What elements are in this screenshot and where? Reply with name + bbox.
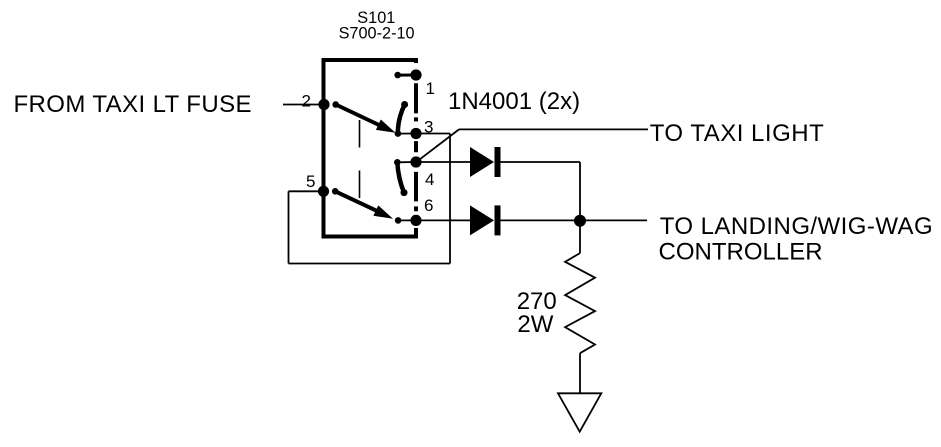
blade free dot below 4: [401, 189, 408, 196]
diode D2 1N4001: [470, 205, 501, 235]
switch S101 right edge dashed segments: [414, 83, 418, 233]
wire to taxi light: [459, 128, 648, 130]
svg-text:TO LANDING/WIG-WAG: TO LANDING/WIG-WAG: [660, 213, 933, 240]
terminal 2 dot: [318, 99, 329, 110]
terminal 4 dot: [410, 156, 421, 167]
blade arc between 1 and 3: [398, 105, 405, 134]
wire terminal 3 stub: [398, 133, 416, 135]
blade contact dot near terminal 1: [394, 72, 401, 79]
wire loop left vertical: [288, 191, 290, 263]
svg-text:5: 5: [306, 172, 315, 191]
resistor R1 270 2W zigzag: [565, 253, 595, 353]
terminal 6 dot: [410, 215, 421, 226]
terminal 3 dot: [410, 128, 421, 139]
pole contact dot at terminal 5: [332, 188, 339, 195]
terminal 1 dot: [410, 69, 421, 80]
blade arc between 4 and 6: [397, 162, 404, 192]
label TO LANDING/WIG-WAG CONTROLLER: [659, 213, 934, 266]
wire diagonal from terminal 4: [417, 129, 460, 161]
switch S101 label: [339, 9, 415, 43]
blade pivot dot above 3: [401, 101, 408, 108]
wire terminal 4 to diode D1: [416, 161, 470, 163]
diode D1 1N4001: [470, 147, 501, 177]
resistor value label 270 2W: [517, 288, 557, 338]
svg-text:1: 1: [426, 79, 435, 98]
ground symbol: [558, 393, 601, 431]
blade contact dot at 3: [395, 130, 402, 137]
blade contact dot at 6: [395, 217, 402, 224]
svg-text:2: 2: [302, 91, 311, 110]
wire loop vertical: [449, 134, 451, 264]
blade contact dot left of 4: [394, 159, 401, 166]
svg-text:CONTROLLER: CONTROLLER: [659, 239, 823, 266]
mechanical link dashed line: [359, 120, 361, 198]
blade at terminal 1: [398, 74, 416, 77]
svg-text:2W: 2W: [517, 311, 553, 338]
wire terminal 6 to diode D2: [416, 219, 470, 221]
svg-text:4: 4: [425, 170, 434, 189]
wire terminal 3 to loop: [416, 133, 450, 135]
pole contact dot at terminal 2: [332, 101, 339, 108]
wire terminal 6 stub: [398, 219, 416, 221]
svg-text:6: 6: [424, 196, 433, 215]
terminal 5 dot: [318, 186, 329, 197]
wire loop to terminal 5: [289, 190, 325, 192]
wire from taxi fuse to terminal 2: [283, 104, 324, 106]
blade stub to terminal 4: [397, 161, 416, 163]
svg-text:1N4001 (2x): 1N4001 (2x): [448, 88, 580, 115]
wire junction down to resistor: [579, 221, 581, 253]
junction node dot: [574, 215, 586, 227]
wire resistor to ground: [579, 353, 581, 393]
actuator arrow pole 1: [336, 105, 396, 133]
switch S101 body outline: [324, 60, 417, 237]
svg-text:TO TAXI LIGHT: TO TAXI LIGHT: [650, 120, 825, 147]
svg-text:FROM TAXI LT FUSE: FROM TAXI LT FUSE: [14, 91, 252, 118]
actuator arrow pole 2: [335, 191, 393, 218]
wire junction to controller: [580, 219, 647, 221]
wire diode D2 to junction: [501, 219, 581, 221]
wire loop bottom: [289, 263, 451, 265]
wire diode D1 to corner: [501, 161, 581, 163]
svg-text:S700-2-10: S700-2-10: [339, 25, 415, 43]
wire corner down to junction: [579, 162, 581, 221]
